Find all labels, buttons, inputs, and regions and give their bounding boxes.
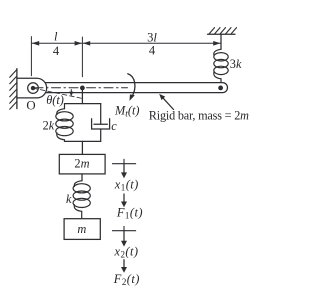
svg-text:l: l: [54, 29, 58, 43]
svg-text:m: m: [77, 222, 86, 236]
svg-text:F1(t): F1(t): [116, 205, 143, 220]
spring 2k (left branch): [56, 104, 73, 142]
wire: down to mass 2m: [81, 141, 83, 154]
wire: bottom rail of parallel branch: [65, 140, 101, 142]
svg-text:Mt(t): Mt(t): [114, 104, 140, 120]
datum bar x2: [113, 230, 136, 232]
datum bar x1: [113, 163, 136, 165]
bar dash-dot centerline: [34, 87, 128, 89]
dimension line 3l/4: [83, 42, 221, 44]
svg-text:F2(t): F2(t): [113, 272, 140, 287]
svg-text:4: 4: [149, 44, 156, 58]
arrow F1(t): [123, 194, 125, 203]
dimension extension line left: [30, 37, 32, 76]
rigid bar: [38, 83, 228, 93]
svg-text:2k: 2k: [43, 119, 55, 133]
wall (left): [16, 69, 18, 109]
wire: ceiling rod to spring 3k: [220, 34, 222, 49]
pivot circle: [28, 83, 39, 94]
mass m: [64, 219, 100, 240]
arrow F2(t): [123, 260, 125, 268]
spring k: [73, 181, 90, 219]
wire: junction down to parallel branch: [81, 88, 83, 104]
svg-text:O: O: [26, 98, 35, 112]
svg-text:x2(t): x2(t): [114, 245, 139, 260]
ceiling support (top right): [208, 28, 237, 35]
arrow x2(t): [123, 231, 125, 242]
node: bar right end dot: [218, 86, 223, 91]
svg-text:k: k: [66, 192, 72, 206]
svg-text:3l: 3l: [147, 31, 157, 45]
svg-text:Rigid bar, mass = 2m: Rigid bar, mass = 2m: [149, 109, 249, 123]
rotated bar position (dashed): [33, 88, 84, 99]
damper cup: [92, 119, 110, 129]
svg-text:2m: 2m: [74, 157, 89, 171]
node: junction on bar: [80, 86, 85, 91]
svg-text:4: 4: [53, 44, 60, 58]
leader arrow to bar: [163, 98, 173, 109]
applied moment Mt(t) curved arrow: [128, 74, 135, 98]
wire: 2m to spring k: [81, 174, 83, 181]
dimension line l/4: [32, 42, 82, 44]
svg-text:θ(t): θ(t): [46, 93, 64, 107]
svg-text:3k: 3k: [230, 57, 242, 71]
wire: top rail of parallel branch: [65, 103, 101, 105]
node O pivot dot: [31, 86, 35, 90]
dimension extension line middle: [81, 37, 83, 77]
svg-text:c: c: [111, 119, 117, 133]
theta direction arrow: [70, 90, 72, 93]
arrow x1(t): [123, 164, 125, 174]
mass 2m: [59, 154, 105, 174]
damper piston: [94, 123, 107, 125]
svg-text:x1(t): x1(t): [114, 177, 139, 192]
damper c (right branch): [100, 104, 102, 125]
pivot bracket: [17, 78, 47, 98]
spring 3k: [214, 49, 228, 87]
datum tick x2: [123, 226, 125, 230]
datum tick x1: [123, 159, 125, 163]
